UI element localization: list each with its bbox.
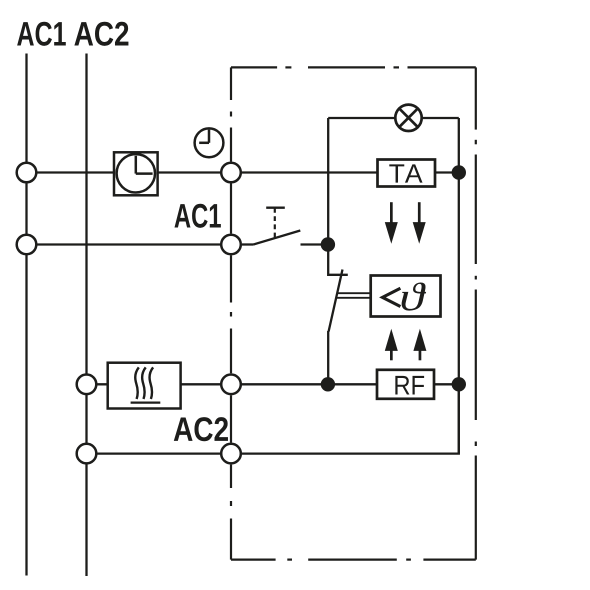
mechanical link double line bbox=[337, 292, 370, 294]
border dash-dot right edge bbox=[475, 67, 477, 559]
junction dot RF right bbox=[452, 377, 466, 391]
lamp E1 (circle with X) bbox=[395, 105, 421, 131]
heater wave 1 bbox=[135, 367, 139, 399]
switch S1 push contact row2 bbox=[242, 243, 254, 245]
junction dot row2 bbox=[321, 237, 335, 251]
wire row1 clock to TA bbox=[158, 171, 378, 173]
arrow up 2 bbox=[413, 329, 426, 361]
node AC2 label top bbox=[74, 22, 128, 46]
box RF (room thermostat) bbox=[377, 370, 434, 399]
node AC2 label middle bbox=[174, 417, 228, 441]
wire lamp loop top bbox=[328, 117, 394, 119]
wire right vertical bus bbox=[458, 118, 460, 454]
clock switch U1 (time switch symbol) bbox=[114, 152, 158, 195]
arrow down 2 bbox=[413, 202, 426, 244]
border dash-dot top edge bbox=[231, 66, 476, 68]
wire row4 AC2 to right corner bbox=[87, 384, 459, 453]
junction dot TA right bbox=[452, 165, 466, 179]
heater wave 3 bbox=[150, 367, 154, 399]
heater wave 2 bbox=[142, 367, 146, 399]
wire AC2 supply vertical bbox=[85, 54, 87, 577]
node AC1 label top bbox=[17, 22, 66, 46]
terminal circle row1 AC1 bbox=[17, 163, 37, 183]
wire lamp loop left vertical bbox=[327, 118, 329, 245]
switch S2 thermostat contact bbox=[328, 245, 348, 275]
box TA (outside temperature sensor) bbox=[378, 160, 436, 187]
border dash-dot left edge bbox=[230, 67, 232, 559]
heater H1 box bbox=[108, 363, 181, 409]
heater underline bbox=[131, 401, 161, 403]
wire row2 AC1 to terminal bbox=[27, 243, 232, 245]
node AC1 label middle bbox=[174, 204, 220, 228]
switch S1 manual actuator T bbox=[266, 207, 285, 209]
wire row3 AC2 to heater bbox=[87, 383, 108, 385]
terminal circle row3 AC2 bbox=[77, 375, 97, 395]
terminal circle row4 AC2 bbox=[77, 444, 97, 464]
terminal circle row1 device bbox=[221, 163, 241, 183]
thermostat U2 box with theta bbox=[371, 276, 441, 317]
terminal circle row4 device bbox=[221, 444, 241, 464]
wire row1 TA to junction bbox=[435, 171, 459, 173]
terminal circle row2 device bbox=[221, 235, 241, 255]
wire row1 AC1 to clock bbox=[27, 171, 115, 173]
terminal circle row2 AC1 bbox=[17, 235, 37, 255]
clock icon small (timer) bbox=[195, 128, 224, 157]
wire row3 RF to junction bbox=[434, 383, 459, 385]
arrow down 1 bbox=[385, 202, 398, 244]
border dash-dot bottom edge bbox=[231, 558, 476, 560]
wire AC1 supply vertical bbox=[25, 54, 27, 576]
wire row3 heater to RF bbox=[181, 383, 377, 385]
arrow up 1 bbox=[385, 329, 398, 361]
terminal circle row3 device bbox=[221, 375, 241, 395]
junction dot row3 left bbox=[321, 377, 335, 391]
